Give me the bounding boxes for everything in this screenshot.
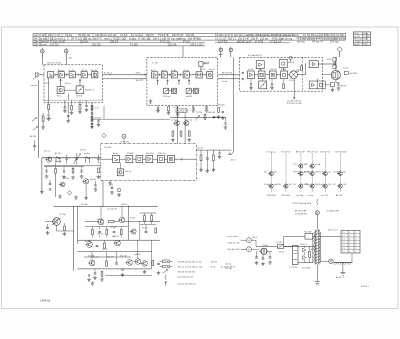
svg-text:560 0.1: 560 0.1: [228, 38, 237, 41]
diode GA3: [117, 188, 121, 197]
svg-text:39p osc 0.1 6.8 1k2 0.1 100: 39p osc 0.1 6.8 1k2 0.1 100: [178, 267, 204, 269]
svg-text:osc 0.1: osc 0.1: [186, 120, 192, 122]
resistor R59b: [217, 108, 221, 119]
svg-text:12V 6.8: 12V 6.8: [81, 70, 87, 72]
FM tuner dashed enclosure: [44, 65, 102, 103]
svg-text:mA 1k2: mA 1k2: [186, 95, 192, 98]
svg-text:0.1 TS 6.8: 0.1 TS 6.8: [289, 267, 297, 269]
svg-text:12 6: 12 6: [342, 251, 345, 253]
svg-text:4700 4700: 4700 4700: [267, 195, 277, 197]
FM RF stage TS1: [47, 63, 62, 78]
AGC transistor TS40: [173, 121, 179, 126]
svg-text:AF det: AF det: [113, 152, 119, 155]
mains terminal X1: [241, 238, 257, 247]
capacitor C54: [218, 150, 222, 159]
svg-text:IF 100: IF 100: [130, 217, 135, 219]
svg-text:2x det: 2x det: [222, 80, 228, 83]
svg-text:reg: reg: [328, 172, 331, 174]
AM IF stage TS34: [136, 155, 143, 162]
svg-text:reg 25k: reg 25k: [354, 36, 360, 38]
svg-text:HF osc 47: HF osc 47: [312, 40, 324, 43]
svg-text:0.1 100: 0.1 100: [363, 41, 368, 43]
capacitor C23: [192, 107, 196, 112]
svg-text:AF reg: AF reg: [58, 69, 63, 72]
diode GA1: [67, 191, 71, 195]
svg-text:4700 0.1: 4700 0.1: [361, 286, 370, 288]
decoupling R13: [78, 100, 82, 114]
svg-text:12V 6.8: 12V 6.8: [97, 234, 103, 236]
svg-text:39p 560: 39p 560: [91, 70, 98, 72]
FM output filter S1: [91, 70, 98, 78]
svg-text:TS mA: TS mA: [318, 183, 324, 186]
wire: [153, 158, 158, 160]
svg-text:2x 1k2: 2x 1k2: [171, 120, 177, 122]
component value labels: [45, 63, 349, 259]
svg-text:0.1 220: 0.1 220: [152, 63, 158, 65]
svg-text:25k: 25k: [328, 184, 331, 186]
wire AM aerial bus: [38, 81, 40, 158]
capacitor C71: [115, 252, 118, 265]
ground: [149, 100, 153, 104]
rectifier GR1: [303, 246, 306, 263]
svg-text:AF 25k 2x AF: AF 25k 2x AF: [295, 209, 307, 212]
svg-text:TS 1k2: TS 1k2: [102, 249, 108, 251]
de-emphasis TS24: [259, 79, 267, 89]
svg-text:HF 12V 1k2: HF 12V 1k2: [307, 151, 318, 153]
capacitor C43: [97, 155, 100, 164]
spare transistor column 3: [293, 150, 310, 197]
ratio detector D1: [288, 70, 300, 79]
demodulator M1: [189, 72, 202, 78]
resistor R53: [212, 150, 216, 172]
legend symbol socket voltages: [160, 260, 218, 263]
note: [295, 209, 340, 215]
svg-text:12 6: 12 6: [342, 242, 345, 244]
AM IF dashed enclosure: [101, 144, 197, 181]
spare transistor column 1: [264, 151, 279, 197]
legend symbol wire colour: [165, 281, 196, 285]
capacitor C82: [268, 251, 272, 264]
IF stage TS8: [161, 72, 167, 78]
aerial terminal B2: [229, 47, 232, 58]
resistor R76: [151, 213, 153, 224]
driver transistor TS52: [112, 235, 120, 246]
svg-text:4700 47 2x: 4700 47 2x: [320, 151, 330, 153]
svg-text:560 osc 0.1: 560 osc 0.1: [328, 230, 338, 232]
output TS57: [141, 261, 148, 274]
ground: [171, 138, 191, 142]
svg-text:reg reg: reg reg: [197, 148, 203, 150]
resistor R78: [155, 228, 157, 233]
svg-text:4700 12V: 4700 12V: [158, 153, 166, 155]
svg-text:100: 100: [289, 184, 292, 186]
svg-text:45: 45: [355, 245, 357, 247]
svg-text:12V reg: 12V reg: [225, 267, 232, 270]
svg-text:12V 560: 12V 560: [110, 226, 117, 228]
svg-text:100 0.1 100: 100 0.1 100: [190, 43, 203, 46]
FM bandfilter TS3: [69, 72, 75, 78]
resistor R80: [309, 246, 311, 263]
svg-text:39p det: 39p det: [90, 178, 96, 181]
svg-text:IF TS: IF TS: [211, 267, 217, 269]
smoothing can C83: [289, 246, 298, 269]
capacitor C45: [94, 181, 98, 191]
output transistor TS53: [88, 252, 95, 266]
dial lamp LA1: [315, 199, 319, 230]
svg-text:4700 osc: 4700 osc: [163, 96, 170, 98]
capacitor C17: [97, 119, 101, 127]
svg-text:det 4700: det 4700: [350, 72, 359, 75]
resistor R46: [97, 168, 101, 179]
svg-text:45: 45: [355, 251, 357, 253]
AM IF stage TS33: [126, 155, 133, 162]
speaker connector: [344, 71, 358, 75]
trimmer row: [44, 163, 84, 197]
capacitor C81: [261, 255, 265, 266]
resistor R67: [104, 240, 106, 248]
ground: [224, 123, 228, 129]
svg-text:mA 4700 12V: mA 4700 12V: [177, 110, 189, 113]
node FM out wire: [102, 73, 147, 79]
wire: [298, 64, 307, 75]
legend symbol adjust arrow: [163, 270, 196, 274]
svg-text:30: 30: [349, 248, 351, 250]
svg-text:4700: 4700: [305, 184, 309, 186]
capacitor C61: [46, 224, 50, 235]
svg-text:TS 560: TS 560: [130, 43, 138, 46]
capacitor C47: [110, 183, 114, 194]
svg-text:39p 39p 4700: 39p 39p 4700: [228, 249, 241, 251]
muting stage T1: [199, 61, 211, 72]
title block right cells: [354, 32, 371, 46]
resistor R58: [204, 114, 206, 119]
svg-text:TS 12V 39p mA 4700: TS 12V 39p mA 4700: [292, 202, 312, 205]
motor M1: [259, 248, 272, 254]
wire AM bus: [42, 158, 101, 191]
svg-text:6.8 TS: 6.8 TS: [80, 150, 87, 152]
svg-text:2x reg: 2x reg: [308, 195, 314, 197]
AF preamp TS15: [256, 61, 264, 69]
AF output stage TS19: [309, 61, 336, 68]
capacitor C80: [255, 251, 259, 264]
AF stage TS22: [269, 71, 276, 79]
svg-text:1k2: 1k2: [293, 184, 296, 186]
svg-text:45: 45: [355, 242, 357, 244]
svg-text:AF 560: AF 560: [341, 85, 347, 88]
wire header drop: [182, 46, 184, 57]
svg-text:1k2: 1k2: [279, 184, 282, 186]
svg-text:12V IF: 12V IF: [200, 69, 206, 71]
svg-text:100 560: 100 560: [208, 112, 215, 114]
svg-text:25k: 25k: [343, 172, 346, 174]
legend symbol socket currents: [160, 265, 237, 268]
AM detector TS38: [117, 163, 131, 176]
antenna terminal A2: [64, 48, 72, 65]
chassis bus: [333, 262, 352, 279]
svg-text:AF 1k2: AF 1k2: [311, 248, 317, 251]
ground: [85, 196, 87, 198]
svg-text:TS 0.1 AF: TS 0.1 AF: [304, 230, 313, 233]
svg-text:47 reg reg: 47 reg reg: [266, 151, 275, 153]
output transistor TS55: [134, 240, 141, 264]
svg-text:220 12V: 220 12V: [107, 256, 114, 258]
svg-text:39p 2x: 39p 2x: [354, 33, 359, 35]
wire: [284, 236, 316, 262]
svg-text:AF 100: AF 100: [55, 152, 61, 155]
svg-text:45: 45: [355, 235, 357, 237]
wire: [158, 74, 162, 76]
wire: [170, 106, 226, 144]
resistor R70: [106, 252, 108, 267]
wire: [53, 180, 158, 207]
svg-text:HF osc: HF osc: [293, 172, 299, 174]
IF sub stage TS13: [186, 88, 191, 93]
capacitor C24: [205, 106, 209, 113]
svg-text:30: 30: [349, 235, 351, 237]
svg-text:det 0.1: det 0.1: [231, 159, 237, 162]
svg-text:25k 39p mA: 25k 39p mA: [34, 43, 47, 46]
svg-text:47 mA 12V HF: 47 mA 12V HF: [327, 209, 340, 212]
wire: [54, 74, 58, 76]
svg-text:12V reg: 12V reg: [330, 40, 339, 43]
driver transistor TS51: [86, 240, 93, 247]
svg-text:47 mA: 47 mA: [264, 183, 270, 186]
wire dial cable: [229, 58, 236, 162]
wire: [140, 213, 156, 225]
svg-text:560 HF 39p: 560 HF 39p: [188, 38, 202, 41]
svg-text:det: det: [69, 57, 72, 60]
wire: [87, 74, 91, 76]
svg-text:4700 0.1: 4700 0.1: [300, 244, 307, 246]
svg-text:osc 6.8: osc 6.8: [288, 62, 294, 64]
svg-text:100 47: 100 47: [252, 237, 258, 239]
svg-text:30: 30: [349, 245, 351, 247]
svg-text:45: 45: [355, 239, 357, 241]
mixer transistor TS30: [45, 157, 51, 162]
svg-text:47 12V: 47 12V: [305, 172, 311, 174]
wire: [133, 158, 136, 160]
wire: [45, 206, 78, 270]
svg-text:reg 4700: reg 4700: [354, 41, 360, 43]
svg-text:TS osc: TS osc: [363, 33, 368, 35]
variable capacitor C42: [73, 153, 80, 165]
ground: [108, 180, 112, 185]
resistor R30: [301, 64, 303, 71]
svg-text:47 560: 47 560: [318, 172, 324, 174]
mains transformer T90: [313, 230, 321, 265]
AGC line down: [287, 79, 303, 105]
svg-text:mA AF: mA AF: [58, 40, 66, 43]
IF sub stage TS12: [172, 88, 177, 93]
volume control R60: [52, 214, 66, 225]
oscillator S2: [202, 72, 213, 79]
IF stage TS9: [171, 72, 177, 78]
IF stage TS7: [152, 72, 158, 78]
test point terminal: [121, 134, 129, 143]
resistor R63: [109, 221, 115, 223]
wire: [78, 268, 152, 270]
svg-text:TS 220: TS 220: [196, 112, 202, 114]
svg-text:560 mA: 560 mA: [93, 255, 100, 258]
capacitor C41: [66, 155, 69, 164]
AF stage TS21: [258, 71, 265, 79]
svg-text:osc 12V: osc 12V: [321, 195, 329, 197]
aerial terminal B1: [219, 47, 223, 58]
svg-text:47 mA: 47 mA: [315, 163, 321, 166]
svg-text:6.8 4700: 6.8 4700: [218, 40, 228, 43]
svg-text:0.1 39p: 0.1 39p: [60, 214, 66, 216]
svg-text:25k 4700: 25k 4700: [146, 153, 153, 155]
wire: [254, 74, 280, 76]
chassis earth: [315, 265, 320, 285]
svg-text:220 0.1: 220 0.1: [122, 204, 128, 206]
svg-text:2x 2x: 2x 2x: [95, 108, 99, 110]
AM IF stage TS36: [158, 155, 165, 162]
resistor R79: [152, 261, 154, 266]
svg-text:220 39p: 220 39p: [81, 204, 88, 206]
wire IF input: [136, 73, 147, 82]
row of decoupling parts: [85, 227, 128, 238]
svg-text:220 220: 220 220: [50, 43, 59, 46]
svg-text:IF 4700: IF 4700: [255, 40, 264, 43]
svg-text:100 560: 100 560: [104, 147, 112, 149]
svg-text:220 220: 220 220: [92, 43, 101, 46]
svg-text:12 6: 12 6: [342, 248, 345, 250]
coil S11: [84, 152, 90, 163]
svg-text:2x 100: 2x 100: [248, 69, 253, 71]
ground: [59, 195, 61, 197]
resistor R62: [63, 223, 67, 236]
svg-text:AF 25k: AF 25k: [336, 194, 342, 197]
capacitor C35: [336, 80, 346, 90]
svg-text:220 det: 220 det: [262, 244, 268, 247]
wire AGC rail: [92, 106, 170, 120]
svg-text:2x 12V: 2x 12V: [46, 118, 53, 120]
ground: [41, 190, 43, 192]
svg-text:560 HF 2x AF: 560 HF 2x AF: [237, 40, 252, 43]
resistor R14: [47, 100, 51, 121]
svg-text:100 osc: 100 osc: [125, 171, 131, 173]
svg-text:12 6: 12 6: [342, 245, 345, 247]
svg-text:560 TS TS 560: 560 TS TS 560: [47, 63, 62, 65]
wire: [44, 78, 102, 100]
svg-text:45: 45: [355, 248, 357, 250]
svg-text:47 TS osc: 47 TS osc: [104, 73, 113, 75]
svg-text:47 HF 39p: 47 HF 39p: [121, 142, 129, 144]
capacitor C73: [87, 275, 91, 282]
wire: [168, 74, 172, 76]
svg-text:39p 2x: 39p 2x: [65, 83, 70, 85]
mains terminal X2: [241, 247, 260, 252]
electrolytic C72: [93, 269, 97, 280]
AM IF stage TS37: [168, 155, 175, 162]
input transistor TS49: [97, 206, 118, 225]
svg-text:osc reg 12V: osc reg 12V: [107, 208, 118, 211]
svg-text:4700 560: 4700 560: [217, 105, 225, 107]
svg-text:12 6: 12 6: [342, 239, 345, 241]
arrow: [195, 116, 200, 121]
capacitor C80b: [157, 263, 161, 274]
resistor R3: [41, 113, 52, 129]
svg-text:560 IF 0.1: 560 IF 0.1: [85, 90, 95, 92]
transistor TS32: [59, 182, 65, 187]
svg-text:AF 25k 2x: AF 25k 2x: [336, 276, 344, 279]
FM oscillator TS5: [57, 79, 64, 93]
svg-text:4700 AF: 4700 AF: [127, 152, 135, 155]
capacitor C81b: [121, 269, 125, 277]
vertical feed wires: [260, 68, 317, 82]
svg-text:30: 30: [349, 242, 351, 244]
capacitor C44: [49, 180, 51, 190]
capacitor C32: [249, 79, 253, 90]
loudspeaker plug diamond: [337, 47, 342, 57]
svg-text:TS 39p: TS 39p: [183, 70, 189, 72]
wire speaker feed: [335, 57, 337, 70]
wire: [101, 158, 197, 160]
varactor arrows: [30, 118, 38, 139]
svg-text:mA 560: mA 560: [134, 253, 140, 256]
wire: [196, 117, 231, 150]
svg-text:6.8 osc: 6.8 osc: [142, 227, 148, 229]
IF stage TS10: [183, 72, 189, 78]
svg-text:reg 6.8: reg 6.8: [161, 70, 167, 72]
svg-text:12 6: 12 6: [342, 235, 345, 237]
svg-text:det reg: det reg: [297, 40, 305, 43]
svg-text:AF 0.1: AF 0.1: [151, 69, 156, 72]
wire IF output: [218, 72, 240, 83]
output transformer S5: [327, 58, 336, 69]
svg-text:2x 6.8 2x 1k2 12V: 2x 6.8 2x 1k2 12V: [178, 277, 195, 279]
svg-text:IF 12V: IF 12V: [277, 242, 283, 244]
svg-text:47 1k2 mA: 47 1k2 mA: [270, 40, 282, 43]
level pot R34: [283, 79, 285, 89]
svg-text:mA 100: mA 100: [97, 218, 103, 221]
ground: [91, 282, 93, 284]
svg-text:reg 6.8: reg 6.8: [209, 69, 215, 71]
svg-text:det 2x reg: det 2x reg: [281, 38, 293, 41]
wire: [164, 158, 167, 160]
output transistor TS54: [126, 260, 133, 266]
svg-text:47 1k2 AF 220: 47 1k2 AF 220: [295, 212, 307, 215]
svg-text:12V mA 560: 12V mA 560: [335, 150, 347, 153]
svg-text:220 25k: 220 25k: [168, 43, 177, 46]
diode GA2: [102, 133, 106, 137]
ground: [75, 196, 77, 198]
resistor R12: [70, 100, 74, 115]
AM osc transistor TS31: [82, 178, 96, 196]
resistor R22: [167, 107, 171, 115]
resistor R55: [172, 131, 174, 136]
limiter TS16: [279, 56, 294, 67]
wire: [322, 74, 332, 85]
decoupling C11: [63, 100, 67, 113]
svg-text:6.8 39p: 6.8 39p: [85, 241, 91, 243]
capacitor C68: [96, 245, 99, 246]
svg-text:100: 100: [343, 184, 346, 186]
svg-text:IF 25k: IF 25k: [45, 83, 50, 85]
AF stage TS20: [248, 71, 255, 79]
resistor R56: [180, 131, 182, 136]
title block header table: [33, 33, 346, 46]
svg-text:6.8 mA mA 12V: 6.8 mA mA 12V: [248, 54, 262, 57]
svg-text:AF 25k: AF 25k: [77, 95, 83, 98]
svg-text:12 6: 12 6: [342, 232, 345, 234]
capacitor C77: [145, 225, 148, 233]
resistor R74: [100, 272, 104, 282]
FM mixer TS4: [81, 72, 87, 78]
wire: [67, 103, 69, 115]
svg-text:6.8: 6.8: [333, 184, 336, 186]
